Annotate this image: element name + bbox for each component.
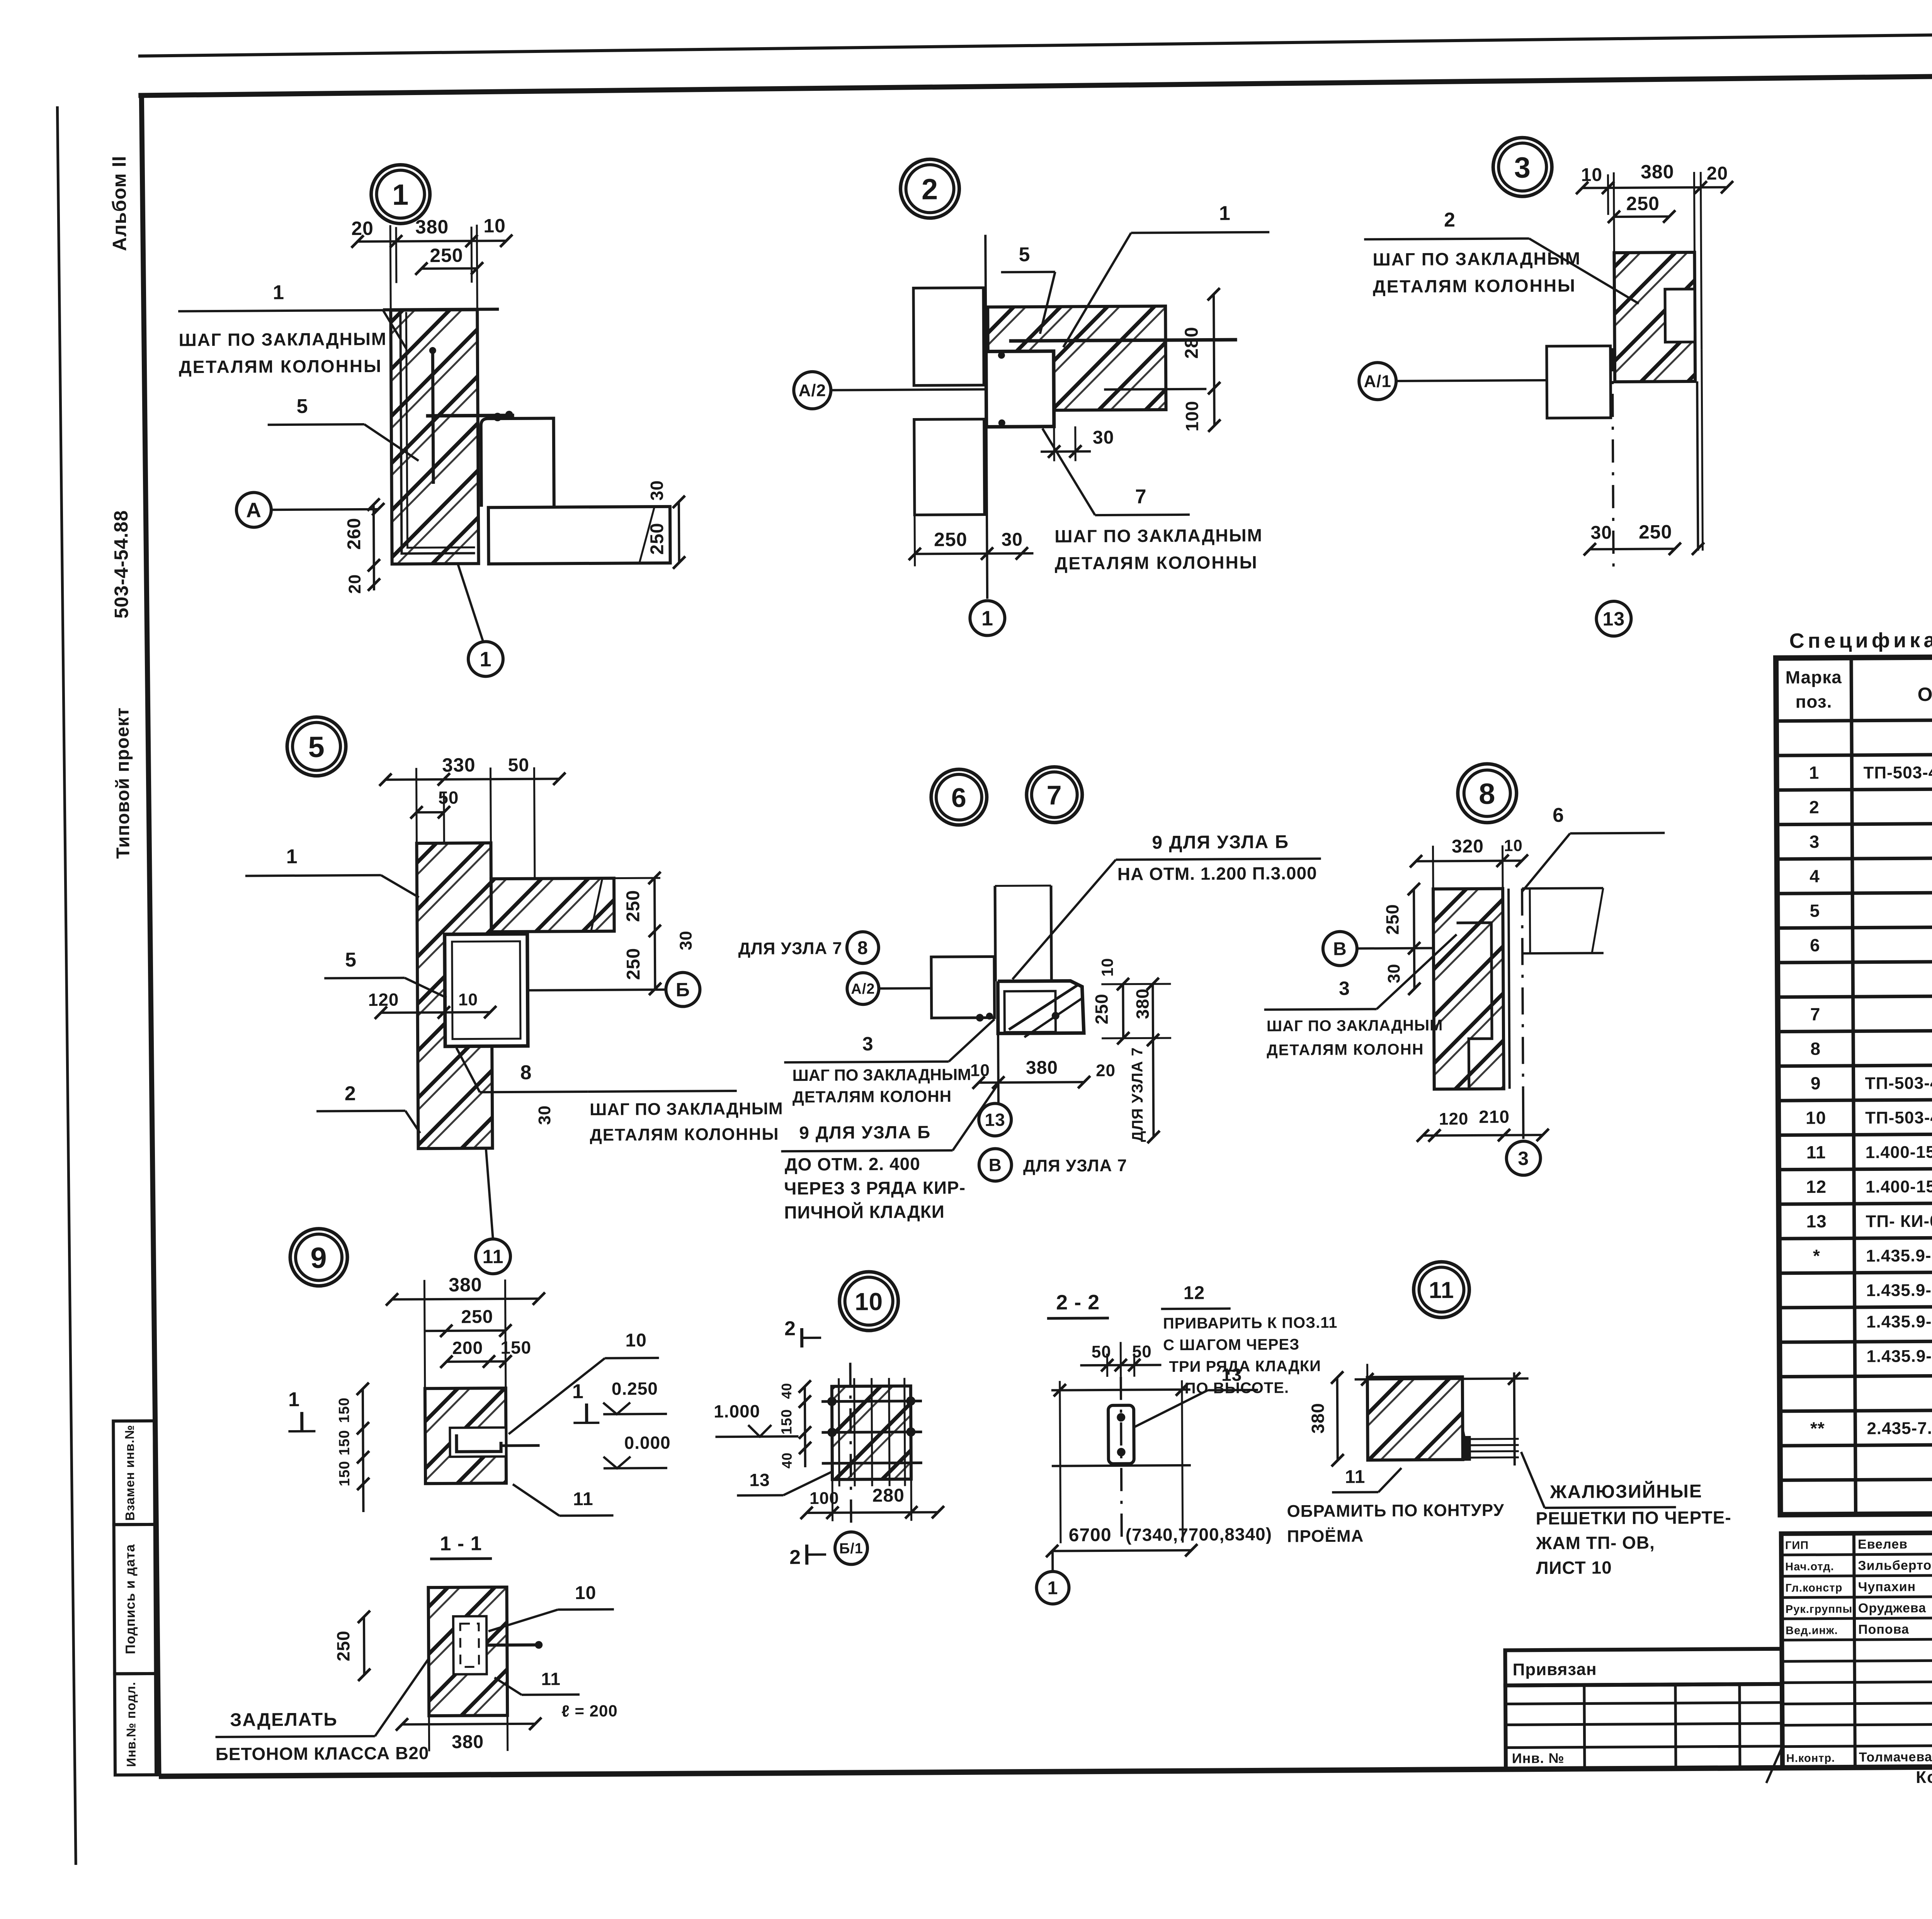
svg-text:поз.: поз.	[1795, 691, 1832, 711]
svg-text:ЖАМ ТП- ОВ,: ЖАМ ТП- ОВ,	[1536, 1533, 1655, 1553]
svg-text:10: 10	[1098, 958, 1116, 977]
svg-text:250: 250	[623, 890, 643, 922]
svg-text:ТП-503-4-54.88КИ-11000-02: ТП-503-4-54.88КИ-11000-02	[1865, 1073, 1932, 1093]
svg-text:13: 13	[1221, 1364, 1242, 1385]
svg-text:*: *	[1813, 1245, 1820, 1266]
svg-text:Чупахин: Чупахин	[1858, 1579, 1916, 1594]
svg-text:ШАГ ПО ЗАКЛАДНЫМ: ШАГ ПО ЗАКЛАДНЫМ	[1054, 525, 1263, 546]
svg-text:120: 120	[368, 990, 399, 1010]
svg-text:150: 150	[336, 1397, 352, 1423]
svg-text:11: 11	[1345, 1466, 1366, 1487]
svg-text:Зильбертов: Зильбертов	[1858, 1558, 1932, 1573]
svg-text:9: 9	[310, 1242, 327, 1274]
svg-text:13: 13	[985, 1109, 1005, 1130]
svg-text:Попова: Попова	[1858, 1622, 1909, 1637]
svg-text:260: 260	[344, 517, 364, 550]
svg-text:10: 10	[1504, 836, 1523, 854]
svg-text:12: 12	[1806, 1177, 1827, 1197]
svg-text:250: 250	[1091, 994, 1111, 1024]
svg-text:А/2: А/2	[851, 981, 875, 997]
svg-text:12: 12	[1184, 1283, 1205, 1303]
svg-text:10: 10	[970, 1061, 990, 1080]
svg-text:А/2: А/2	[798, 381, 826, 400]
svg-text:11: 11	[541, 1669, 561, 1689]
svg-text:5: 5	[296, 395, 308, 418]
svg-text:10: 10	[855, 1288, 883, 1315]
svg-text:Б/1: Б/1	[839, 1541, 863, 1557]
svg-text:3: 3	[862, 1033, 874, 1055]
svg-text:6700: 6700	[1069, 1525, 1112, 1546]
svg-text:Марка: Марка	[1785, 667, 1842, 687]
svg-text:8: 8	[857, 938, 868, 958]
svg-text:30: 30	[1001, 529, 1023, 550]
svg-text:ДЛЯ УЗЛА 7: ДЛЯ УЗЛА 7	[1129, 1047, 1146, 1142]
svg-text:Обозначение: Обозначение	[1917, 683, 1932, 705]
svg-text:1: 1	[1809, 762, 1820, 783]
svg-text:6: 6	[1810, 935, 1820, 955]
svg-text:Б: Б	[676, 979, 690, 1000]
svg-text:3: 3	[1514, 151, 1531, 184]
svg-text:5: 5	[345, 949, 357, 971]
svg-text:250: 250	[333, 1630, 353, 1661]
svg-text:2.435-7.1.41: 2.435-7.1.41	[1867, 1419, 1932, 1438]
svg-text:30: 30	[535, 1105, 554, 1125]
svg-text:2: 2	[1809, 797, 1820, 817]
svg-text:1: 1	[288, 1388, 300, 1411]
svg-text:РЕШЕТКИ ПО ЧЕРТЕ-: РЕШЕТКИ ПО ЧЕРТЕ-	[1536, 1507, 1731, 1528]
svg-text:3: 3	[1339, 978, 1350, 999]
svg-text:9: 9	[1811, 1073, 1821, 1093]
svg-text:10: 10	[1581, 165, 1603, 185]
svg-text:0.000: 0.000	[624, 1432, 670, 1453]
svg-text:ЛИСТ 10: ЛИСТ 10	[1536, 1557, 1612, 1578]
svg-text:Инв. №: Инв. №	[1512, 1750, 1565, 1766]
svg-text:Оруджева: Оруджева	[1858, 1601, 1927, 1616]
svg-text:Инв.№ подл.: Инв.№ подл.	[124, 1682, 138, 1767]
svg-text:250: 250	[623, 948, 644, 980]
svg-text:5: 5	[308, 731, 325, 764]
svg-text:**: **	[1810, 1418, 1825, 1438]
svg-text:0.250: 0.250	[612, 1378, 658, 1399]
svg-text:30: 30	[1590, 522, 1612, 543]
svg-text:ДЛЯ УЗЛА 7: ДЛЯ УЗЛА 7	[738, 939, 842, 958]
svg-text:11: 11	[1429, 1277, 1454, 1303]
svg-text:40: 40	[779, 1452, 795, 1468]
svg-text:210: 210	[1479, 1106, 1510, 1126]
svg-text:7: 7	[1135, 485, 1147, 508]
svg-text:Вед.инж.: Вед.инж.	[1786, 1624, 1838, 1637]
svg-text:1 - 1: 1 - 1	[440, 1532, 482, 1555]
svg-text:2: 2	[1444, 209, 1456, 231]
svg-text:6: 6	[1553, 804, 1564, 827]
svg-text:100: 100	[1182, 401, 1202, 432]
svg-text:ШАГ ПО ЗАКЛАДНЫМ: ШАГ ПО ЗАКЛАДНЫМ	[792, 1065, 971, 1084]
svg-text:503-4-54.88: 503-4-54.88	[110, 510, 132, 619]
svg-text:20: 20	[345, 574, 364, 594]
svg-text:7: 7	[1047, 780, 1062, 810]
svg-text:ДЛЯ УЗЛА 7: ДЛЯ УЗЛА 7	[1023, 1156, 1128, 1176]
svg-text:8: 8	[520, 1062, 532, 1084]
svg-text:250: 250	[461, 1307, 493, 1327]
svg-text:50: 50	[1132, 1342, 1152, 1361]
svg-text:Взамен инв.№: Взамен инв.№	[122, 1425, 137, 1521]
svg-text:330: 330	[442, 754, 476, 776]
svg-text:380: 380	[1026, 1058, 1058, 1078]
svg-text:11: 11	[573, 1489, 594, 1509]
svg-text:ШАГ ПО ЗАКЛАДНЫМ: ШАГ ПО ЗАКЛАДНЫМ	[179, 329, 387, 350]
svg-text:2: 2	[784, 1317, 796, 1340]
svg-text:ТП- КИ-08000-14: ТП- КИ-08000-14	[1866, 1211, 1932, 1231]
svg-text:13: 13	[1806, 1211, 1827, 1231]
svg-text:2: 2	[345, 1082, 356, 1105]
svg-text:Рук.группы: Рук.группы	[1786, 1603, 1853, 1616]
svg-text:ЖАЛЮЗИЙНЫЕ: ЖАЛЮЗИЙНЫЕ	[1549, 1480, 1702, 1502]
svg-text:380: 380	[452, 1732, 484, 1752]
svg-text:1.000: 1.000	[714, 1401, 760, 1422]
svg-text:Н.контр.: Н.контр.	[1786, 1752, 1835, 1765]
svg-text:40: 40	[779, 1383, 794, 1399]
svg-text:280: 280	[872, 1485, 905, 1506]
svg-text:ГИП: ГИП	[1785, 1539, 1809, 1552]
svg-text:120: 120	[1439, 1109, 1469, 1128]
svg-text:200: 200	[452, 1337, 483, 1358]
svg-text:ТРИ РЯДА КЛАДКИ: ТРИ РЯДА КЛАДКИ	[1169, 1358, 1321, 1375]
svg-text:ЗАДЕЛАТЬ: ЗАДЕЛАТЬ	[230, 1709, 338, 1730]
svg-text:10: 10	[625, 1330, 647, 1351]
svg-text:1: 1	[273, 281, 284, 304]
svg-text:А: А	[246, 498, 262, 522]
svg-text:50: 50	[1092, 1342, 1111, 1361]
svg-text:ДЕТАЛЯМ КОЛОНН: ДЕТАЛЯМ КОЛОНН	[1267, 1041, 1424, 1059]
svg-text:ДЕТАЛЯМ КОЛОННЫ: ДЕТАЛЯМ КОЛОННЫ	[1373, 276, 1576, 297]
svg-text:13: 13	[749, 1470, 770, 1490]
svg-text:ПИЧНОЙ КЛАДКИ: ПИЧНОЙ КЛАДКИ	[784, 1201, 945, 1222]
svg-text:ТП-503-4-54.88 КИ-08000-10: ТП-503-4-54.88 КИ-08000-10	[1863, 762, 1932, 782]
svg-text:1: 1	[1048, 1578, 1058, 1598]
svg-text:7: 7	[1810, 1004, 1821, 1024]
svg-text:ШАГ ПО ЗАКЛАДНЫМ: ШАГ ПО ЗАКЛАДНЫМ	[1267, 1017, 1443, 1034]
svg-text:1: 1	[392, 179, 409, 211]
svg-text:1.435.9-25.0.0305: 1.435.9-25.0.0305	[1866, 1346, 1932, 1366]
svg-text:100: 100	[810, 1489, 839, 1508]
svg-text:1.400-15 В.1.005 - 40: 1.400-15 В.1.005 - 40	[1866, 1142, 1932, 1162]
svg-text:Нач.отд.: Нач.отд.	[1785, 1560, 1834, 1573]
svg-text:В: В	[1333, 939, 1347, 959]
svg-text:20: 20	[1707, 163, 1728, 184]
svg-text:10: 10	[575, 1583, 597, 1603]
svg-text:150: 150	[779, 1409, 795, 1435]
svg-text:380: 380	[1308, 1403, 1328, 1434]
svg-text:280: 280	[1181, 327, 1202, 359]
svg-text:2 - 2: 2 - 2	[1056, 1291, 1100, 1314]
svg-text:250: 250	[430, 245, 463, 266]
svg-text:250: 250	[647, 522, 667, 555]
svg-text:Евелев: Евелев	[1858, 1537, 1908, 1552]
svg-text:ДЕТАЛЯМ КОЛОННЫ: ДЕТАЛЯМ КОЛОННЫ	[179, 356, 382, 377]
svg-text:ДО ОТМ. 2. 400: ДО ОТМ. 2. 400	[785, 1153, 920, 1174]
svg-text:8: 8	[1810, 1039, 1821, 1059]
svg-text:11: 11	[482, 1246, 503, 1267]
svg-text:380: 380	[1132, 988, 1152, 1019]
svg-text:4: 4	[1810, 866, 1820, 886]
svg-text:1: 1	[1219, 202, 1231, 225]
svg-text:50: 50	[438, 788, 459, 808]
svg-text:ДЕТАЛЯМ КОЛОНН: ДЕТАЛЯМ КОЛОНН	[793, 1087, 952, 1106]
svg-text:50: 50	[508, 755, 530, 776]
svg-text:380: 380	[449, 1274, 482, 1295]
svg-text:Привязан: Привязан	[1513, 1660, 1597, 1679]
svg-text:ℓ = 200: ℓ = 200	[561, 1702, 618, 1720]
svg-text:А/1: А/1	[1364, 372, 1391, 391]
svg-text:Типовой проект: Типовой проект	[112, 707, 134, 859]
svg-text:БЕТОНОМ КЛАССА В20: БЕТОНОМ КЛАССА В20	[216, 1743, 429, 1764]
svg-text:150: 150	[336, 1430, 352, 1456]
svg-text:Гл.констр: Гл.констр	[1785, 1582, 1842, 1594]
svg-text:250: 250	[1382, 904, 1402, 935]
svg-text:1.435.9-25.0.5400-01: 1.435.9-25.0.5400-01	[1866, 1246, 1932, 1266]
svg-text:ПРИВАРИТЬ К ПОЗ.11: ПРИВАРИТЬ К ПОЗ.11	[1163, 1314, 1338, 1332]
svg-text:2: 2	[922, 173, 939, 206]
svg-text:13: 13	[1602, 608, 1625, 629]
svg-text:250: 250	[1626, 192, 1660, 214]
svg-text:20: 20	[1096, 1061, 1116, 1080]
svg-text:380: 380	[1641, 161, 1674, 182]
svg-text:ШАГ ПО ЗАКЛАДНЫМ: ШАГ ПО ЗАКЛАДНЫМ	[1372, 248, 1581, 269]
svg-text:9 ДЛЯ УЗЛА Б: 9 ДЛЯ УЗЛА Б	[799, 1122, 931, 1143]
svg-text:В: В	[989, 1155, 1002, 1175]
svg-text:30: 30	[677, 931, 696, 950]
svg-text:Альбом II: Альбом II	[108, 156, 130, 251]
svg-text:1.435.9-25.0.5500-01: 1.435.9-25.0.5500-01	[1866, 1280, 1932, 1300]
svg-text:9 ДЛЯ УЗЛА Б: 9 ДЛЯ УЗЛА Б	[1152, 832, 1289, 853]
svg-text:5: 5	[1019, 243, 1030, 266]
svg-text:150: 150	[500, 1337, 531, 1358]
svg-text:ШАГ ПО ЗАКЛАДНЫМ: ШАГ ПО ЗАКЛАДНЫМ	[590, 1099, 783, 1119]
svg-text:20: 20	[351, 218, 374, 239]
svg-text:ЧЕРЕЗ 3 РЯДА КИР-: ЧЕРЕЗ 3 РЯДА КИР-	[784, 1177, 966, 1198]
svg-text:1.435.9-25.0.0302: 1.435.9-25.0.0302	[1866, 1312, 1932, 1332]
svg-text:11: 11	[1806, 1142, 1826, 1162]
svg-text:150: 150	[337, 1461, 353, 1487]
svg-text:С ШАГОМ ЧЕРЕЗ: С ШАГОМ ЧЕРЕЗ	[1163, 1336, 1299, 1354]
svg-text:1: 1	[480, 648, 492, 671]
svg-text:320: 320	[1452, 836, 1484, 857]
svg-text:380: 380	[415, 216, 449, 238]
svg-text:НА ОТМ. 1.200 П.3.000: НА ОТМ. 1.200 П.3.000	[1117, 863, 1317, 884]
svg-text:Спецификация элементов к: Спецификация элементов крепления кирпичн…	[1789, 626, 1932, 653]
svg-text:10: 10	[458, 990, 478, 1009]
svg-text:ОБРАМИТЬ ПО КОНТУРУ: ОБРАМИТЬ ПО КОНТУРУ	[1287, 1501, 1504, 1521]
svg-text:1: 1	[981, 607, 993, 630]
svg-text:250: 250	[934, 529, 968, 550]
svg-text:ТП-503-4-54.88 КИ-08000-13: ТП-503-4-54.88 КИ-08000-13	[1865, 1107, 1932, 1127]
svg-text:30: 30	[646, 480, 667, 500]
svg-text:10: 10	[1806, 1108, 1826, 1128]
svg-text:30: 30	[1093, 427, 1114, 448]
svg-text:8: 8	[1479, 777, 1496, 810]
svg-text:6: 6	[951, 783, 967, 813]
svg-text:2: 2	[789, 1546, 801, 1569]
svg-text:(7340,7700,8340): (7340,7700,8340)	[1126, 1524, 1272, 1545]
svg-text:1.400-15 В.1.004 - 02: 1.400-15 В.1.004 - 02	[1866, 1177, 1932, 1196]
svg-text:Толмачева: Толмачева	[1859, 1750, 1932, 1765]
svg-text:ДЕТАЛЯМ КОЛОННЫ: ДЕТАЛЯМ КОЛОННЫ	[590, 1125, 779, 1145]
svg-text:ДЕТАЛЯМ КОЛОННЫ: ДЕТАЛЯМ КОЛОННЫ	[1055, 552, 1258, 573]
svg-text:30: 30	[1384, 963, 1403, 983]
svg-text:Копировал: Романова: Копировал: Романова	[1916, 1767, 1932, 1787]
svg-text:5: 5	[1810, 900, 1820, 920]
svg-text:3: 3	[1518, 1148, 1529, 1169]
svg-text:250: 250	[1639, 521, 1672, 543]
svg-text:Подпись и дата: Подпись и дата	[122, 1544, 138, 1654]
svg-text:1: 1	[286, 846, 298, 868]
svg-text:3: 3	[1810, 832, 1820, 852]
svg-text:10: 10	[483, 215, 506, 236]
svg-text:ПРОЁМА: ПРОЁМА	[1287, 1526, 1364, 1546]
